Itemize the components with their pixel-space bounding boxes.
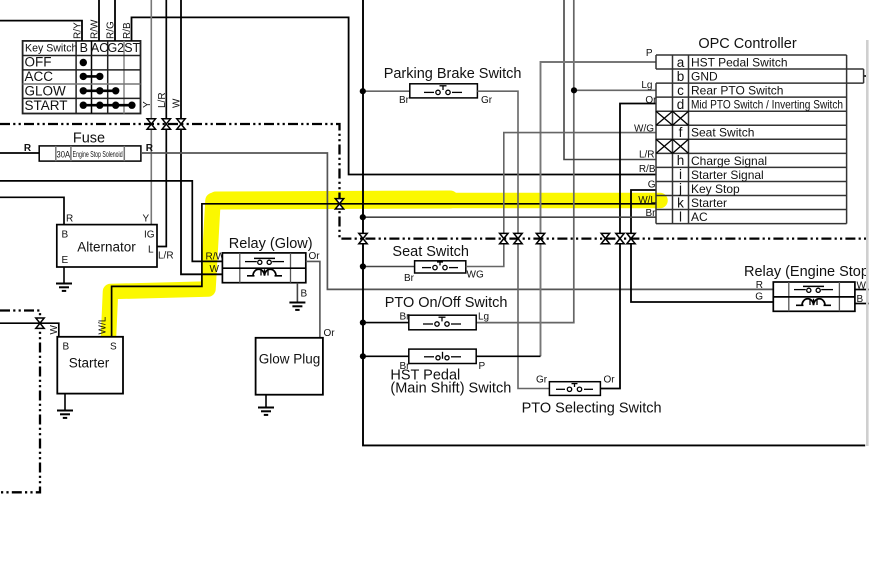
svg-text:Seat Switch: Seat Switch (691, 126, 754, 140)
connector X spare at boundary (601, 233, 609, 243)
highlighter mark (yellow) over W/L wire (109, 200, 661, 338)
wire W relay engine stop to edge (855, 289, 869, 291)
wire L/R to OPC h (564, 0, 656, 160)
key switch table (23, 41, 141, 114)
svg-text:B: B (301, 289, 308, 300)
svg-text:Relay (Glow): Relay (Glow) (229, 236, 313, 252)
svg-text:c: c (677, 83, 684, 98)
svg-text:PTO Selecting Switch: PTO Selecting Switch (522, 401, 662, 417)
junction dot Br / PTO on-off (360, 320, 366, 326)
wire G (relay engine stop to OPC j Key Stop) (631, 190, 773, 302)
connector X on Or at boundary (616, 233, 624, 243)
connector X on L/R wire (162, 119, 170, 129)
svg-text:Mid PTO Switch / Inverting Swi: Mid PTO Switch / Inverting Switch (691, 98, 843, 112)
svg-text:(Main Shift) Switch: (Main Shift) Switch (390, 381, 511, 397)
alternator (57, 225, 157, 267)
OPC X'd spare cells row g (656, 139, 689, 153)
svg-text:j: j (678, 181, 682, 196)
svg-text:R: R (66, 214, 73, 225)
svg-text:Or: Or (309, 251, 321, 262)
svg-text:W: W (49, 325, 60, 335)
svg-text:R/B: R/B (122, 22, 133, 39)
svg-text:Lg: Lg (641, 80, 652, 91)
svg-text:f: f (679, 125, 683, 140)
wire Lg vertical (rear PTO) (476, 0, 574, 323)
wire B relay engine stop to edge (855, 303, 869, 305)
svg-text:START: START (25, 98, 68, 113)
svg-text:Parking Brake Switch: Parking Brake Switch (384, 66, 522, 82)
svg-text:Or: Or (645, 95, 657, 106)
OPC pin letters (677, 55, 685, 225)
svg-text:Or: Or (324, 328, 336, 339)
svg-text:E: E (62, 255, 69, 266)
OPC X'd spare cells row e (656, 111, 689, 125)
svg-text:h: h (677, 153, 685, 168)
svg-text:G: G (648, 180, 656, 191)
svg-text:R: R (24, 143, 32, 154)
wire R fuse to relay engine stop (141, 153, 773, 289)
svg-text:W/L: W/L (98, 316, 109, 334)
svg-text:P: P (479, 361, 486, 372)
wire R/B (key switch ST to OPC i Starter Signal) (132, 17, 657, 174)
svg-text:Glow Plug: Glow Plug (259, 352, 321, 367)
wire R/W (to relay glow) (0, 181, 222, 262)
junction dot Br / seat switch (360, 263, 366, 269)
wire R/Y (key switch B) (0, 21, 82, 41)
wire Gr parking brake to PTO selecting switch (477, 91, 549, 388)
connector X on G at boundary (627, 233, 635, 243)
svg-text:ACC: ACC (25, 69, 54, 84)
svg-text:W: W (210, 264, 220, 275)
svg-text:AC: AC (91, 41, 108, 55)
svg-text:R/G: R/G (106, 21, 117, 39)
connector X on P at boundary (536, 233, 544, 243)
svg-text:R: R (756, 280, 763, 291)
svg-text:Key Stop: Key Stop (691, 182, 740, 196)
svg-text:B: B (63, 342, 70, 353)
wire W/L (OPC k to starter S, highlighted) (112, 204, 656, 337)
svg-text:Charge Signal: Charge Signal (691, 154, 767, 168)
frame boundary dash-dot lower-left box (0, 311, 40, 493)
svg-text:ST: ST (124, 41, 140, 55)
starter (57, 337, 123, 394)
page edge shading right (866, 40, 869, 446)
svg-text:R/Y: R/Y (73, 22, 84, 39)
svg-text:R/W: R/W (90, 19, 101, 39)
key switch contact dots (80, 59, 136, 109)
svg-text:L: L (148, 245, 154, 256)
svg-text:PTO On/Off Switch: PTO On/Off Switch (385, 295, 508, 311)
svg-text:l: l (679, 209, 682, 224)
wire R (alternator B) (0, 197, 64, 224)
svg-text:Y: Y (143, 214, 150, 225)
relay engine stop coil symbol (796, 299, 831, 306)
svg-text:Br: Br (404, 273, 415, 284)
wire W to starter B (0, 323, 59, 337)
svg-text:a: a (677, 55, 685, 70)
svg-text:W/G: W/G (634, 124, 654, 135)
connector X on W/L at frame boundary (335, 199, 343, 209)
frame boundary dash-dot upper (0, 124, 869, 239)
svg-text:S: S (110, 342, 117, 353)
svg-text:R/B: R/B (639, 164, 656, 175)
svg-text:G: G (755, 292, 763, 303)
svg-text:B: B (80, 41, 88, 55)
relay glow coil symbol (247, 269, 282, 276)
svg-text:Br: Br (400, 312, 411, 323)
svg-text:Fuse: Fuse (73, 131, 105, 147)
svg-text:i: i (679, 167, 682, 182)
connector X on W wire (177, 119, 185, 129)
svg-text:Gr: Gr (481, 95, 493, 106)
wire R/W (key switch AC) (98, 0, 100, 41)
wire Or (OPC d to PTO selecting) (600, 104, 656, 389)
wire W (to relay glow W) (181, 0, 222, 274)
svg-text:Gr: Gr (536, 375, 548, 386)
wire R/G (key switch G2) (114, 0, 116, 41)
svg-text:Starter: Starter (691, 196, 727, 210)
svg-text:Y: Y (142, 101, 153, 108)
svg-text:L/R: L/R (158, 251, 174, 262)
OPC wire labels (634, 48, 657, 219)
junction dot Br / HST pedal (360, 353, 366, 359)
svg-text:d: d (677, 97, 685, 112)
connector X on Gr at boundary (514, 233, 522, 243)
svg-text:Br: Br (399, 95, 410, 106)
svg-text:Starter Signal: Starter Signal (691, 168, 764, 182)
svg-text:G2: G2 (107, 41, 124, 55)
svg-text:IG: IG (144, 230, 155, 241)
svg-text:30A: 30A (57, 149, 71, 159)
connector X on W/G at boundary (500, 233, 508, 243)
svg-text:GLOW: GLOW (25, 83, 67, 98)
connector X on Br wire at boundary (359, 233, 367, 243)
svg-text:W: W (172, 98, 183, 108)
wire Lg branch to OPC c (574, 89, 656, 91)
relay glow contact symbol (245, 258, 284, 264)
svg-text:Or: Or (604, 375, 616, 386)
svg-text:B: B (62, 230, 69, 241)
svg-text:Relay (Engine Stop: Relay (Engine Stop (744, 264, 869, 280)
junction dot Br / parking brake (360, 88, 366, 94)
glow plug (256, 338, 323, 395)
svg-text:W/L: W/L (638, 195, 656, 206)
wire Br main vertical (363, 0, 865, 445)
svg-text:L/R: L/R (157, 92, 168, 108)
wire W/G seat switch to OPC f (466, 133, 656, 267)
wire Y (to alternator IG) (150, 0, 152, 225)
connector X on W starter wire (36, 318, 44, 328)
OPC pin descriptions (691, 56, 843, 225)
svg-text:b: b (677, 69, 685, 84)
svg-text:Key Switch: Key Switch (25, 42, 78, 54)
svg-text:Br: Br (646, 208, 657, 219)
key switch contact bars (83, 76, 132, 105)
svg-text:Seat Switch: Seat Switch (392, 244, 469, 260)
junction dot Lg branch (571, 87, 577, 93)
svg-text:WG: WG (467, 270, 484, 281)
svg-text:P: P (646, 48, 653, 59)
svg-text:Engine Stop Solenoid: Engine Stop Solenoid (73, 150, 123, 159)
junction dot Br / OPC l (360, 214, 366, 220)
wire Or relay glow to glow plug (306, 261, 320, 337)
ground at starter (64, 394, 66, 411)
svg-text:OPC Controller: OPC Controller (698, 36, 796, 52)
relay engine stop contact symbol (794, 286, 833, 292)
wire R into fuse (0, 152, 39, 154)
svg-text:AC: AC (691, 210, 708, 224)
HST pedal (main shift) switch (363, 349, 541, 372)
ground at alternator E (56, 267, 72, 291)
wire L/R (to alternator L) (157, 0, 166, 247)
svg-text:OFF: OFF (25, 55, 52, 70)
svg-text:Lg: Lg (478, 312, 489, 323)
fuse F1 30A Engine Stop Solenoid (39, 146, 141, 161)
connector X on Y wire (147, 119, 155, 129)
ground at glow plug (265, 395, 267, 408)
svg-text:GND: GND (691, 70, 718, 84)
svg-text:Starter: Starter (69, 356, 110, 371)
svg-text:Alternator: Alternator (77, 240, 136, 255)
svg-text:L/R: L/R (639, 149, 655, 160)
wire B + ground at relay glow (296, 283, 298, 303)
wire P (HST pedal to OPC a) (541, 62, 657, 356)
wire Br branch to OPC l (363, 216, 656, 218)
svg-text:k: k (677, 195, 684, 210)
svg-text:Rear PTO Switch: Rear PTO Switch (691, 84, 783, 98)
svg-text:HST Pedal Switch: HST Pedal Switch (691, 56, 788, 70)
